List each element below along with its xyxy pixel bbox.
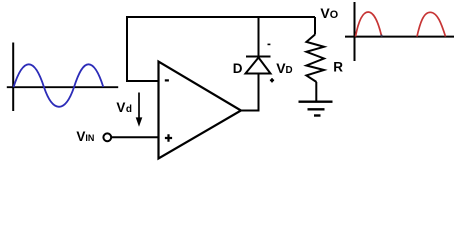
- resistor R zigzag: [306, 35, 324, 83]
- diode polarity plus: [270, 78, 274, 82]
- svg-text:VD: VD: [276, 60, 292, 76]
- output graph vertical axis: [354, 2, 356, 61]
- junction dot at end of hump 1: [381, 35, 383, 37]
- output graph horizontal axis: [345, 36, 454, 38]
- wire op-amp output to diode anode branch: [241, 74, 259, 111]
- output rectified hump 1 (red): [356, 12, 382, 37]
- svg-text:Vd: Vd: [116, 100, 132, 115]
- arrow Vd (downward): [136, 93, 143, 127]
- wire feedback: minus input up and over to VO node: [127, 17, 315, 81]
- wire diode cathode to top wire: [258, 17, 260, 57]
- input terminal circle: [103, 133, 111, 141]
- input graph vertical axis: [12, 43, 14, 112]
- wire VO node down to resistor: [314, 17, 316, 35]
- svg-text:VIN: VIN: [76, 129, 94, 144]
- op-amp minus sign: [165, 79, 169, 81]
- op-amp U1 triangle: [159, 62, 242, 159]
- output rectified hump 2 (red): [417, 12, 446, 36]
- diode polarity minus: [268, 43, 271, 45]
- ground symbol: [299, 102, 333, 116]
- wire VIN terminal to op-amp plus input: [112, 136, 159, 138]
- svg-text:R: R: [333, 59, 343, 74]
- diode D (anode bottom, cathode top): [246, 57, 271, 74]
- wire resistor to ground: [315, 82, 317, 102]
- svg-text:D: D: [233, 61, 243, 76]
- svg-text:VO: VO: [320, 5, 338, 21]
- input graph horizontal axis: [7, 86, 118, 88]
- input sine wave Vin (blue): [14, 64, 104, 107]
- op-amp plus sign: [165, 134, 172, 141]
